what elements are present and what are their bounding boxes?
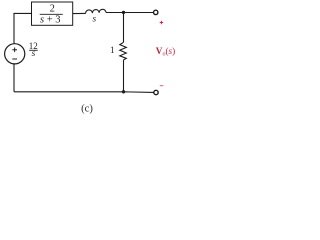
fraction bar (source) — [29, 49, 38, 51]
wire: inductor to output terminal — [106, 12, 153, 14]
wire: source - terminal down to bottom rail — [13, 64, 15, 92]
svg-text:(c): (c) — [81, 104, 93, 115]
source polarity + (inside circle) — [12, 48, 17, 53]
polarity - at output (red) — [160, 85, 163, 87]
voltage source Vs=12/s — [5, 44, 25, 64]
svg-text:s: s — [92, 15, 96, 25]
wire: resistor bottom to bottom rail — [123, 60, 125, 92]
svg-text:1: 1 — [110, 45, 115, 55]
transfer-function block H(s)=2/(s+3) — [32, 2, 73, 25]
svg-text:Vo(s): Vo(s) — [156, 46, 175, 57]
wire: top junction down to resistor — [123, 13, 125, 43]
resistor R=1 — [120, 42, 127, 60]
polarity + at output (red) — [160, 21, 164, 25]
wire: block output to inductor — [73, 12, 86, 14]
svg-text:2: 2 — [50, 3, 55, 14]
svg-text:s + 3: s + 3 — [40, 15, 61, 26]
wire: bottom rail — [14, 91, 154, 94]
node: bottom junction — [122, 90, 125, 93]
fraction bar (block) — [40, 13, 63, 15]
wire: source + terminal up and right to block input — [14, 13, 32, 43]
svg-text:s: s — [32, 49, 36, 59]
inductor L=s — [86, 9, 106, 13]
node: top junction — [122, 11, 125, 14]
source polarity - (inside circle) — [12, 58, 17, 60]
terminal: output + — [154, 10, 158, 14]
terminal: output - — [154, 90, 158, 94]
